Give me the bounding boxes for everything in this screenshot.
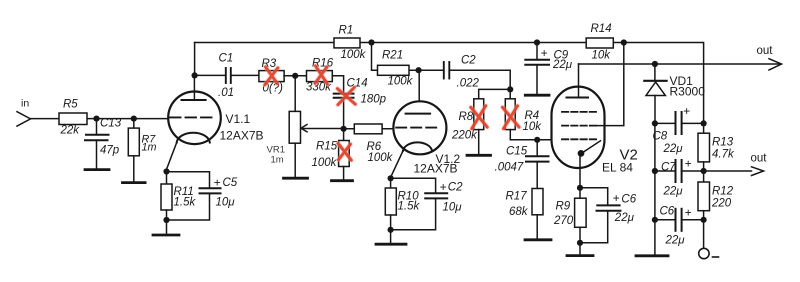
resistor R6: [344, 124, 394, 164]
resistor R11: [161, 172, 196, 234]
node C6 left: [652, 217, 658, 223]
wire left output column: [654, 123, 656, 255]
svg-text:EL 84: EL 84: [602, 161, 633, 175]
wire V1.1 plate to top rail: [194, 43, 196, 76]
ground (C9): [525, 94, 549, 97]
node VD1 tap: [652, 61, 658, 67]
capacitor C5: [167, 172, 238, 220]
svg-text:22μ: 22μ: [665, 235, 686, 247]
node out label top: [757, 45, 782, 70]
svg-text:out: out: [757, 45, 774, 57]
node V1.2 cathode junction: [388, 175, 394, 181]
potentiometer VR1: [267, 76, 344, 178]
svg-text:10μ: 10μ: [443, 201, 463, 213]
node R10 bottom junction: [388, 227, 394, 233]
node C7 left: [652, 168, 658, 174]
resistor R9: [553, 188, 586, 255]
svg-text:12AX7B: 12AX7B: [220, 129, 264, 143]
node rail to R21 drop: [368, 39, 374, 45]
svg-text:R1: R1: [339, 25, 354, 37]
svg-text:in: in: [21, 98, 29, 110]
svg-text:C8: C8: [653, 131, 668, 143]
resistor R13: [698, 123, 735, 182]
svg-text:22μ: 22μ: [552, 59, 573, 71]
svg-text:R12: R12: [712, 186, 734, 198]
node minus mark: [713, 256, 719, 258]
resistor R17: [506, 189, 544, 239]
X over R3: [265, 67, 278, 85]
svg-text:+: +: [213, 176, 220, 190]
svg-text:+: +: [439, 180, 446, 194]
node wiper junction: [341, 126, 347, 132]
ground (output column): [636, 254, 668, 257]
resistor R10: [385, 178, 420, 243]
resistor R21: [372, 43, 444, 88]
node junction C13: [93, 116, 99, 122]
node C8 left: [652, 120, 658, 126]
node C15 tap: [534, 137, 540, 143]
node C9 tap: [534, 39, 540, 45]
node C1 tap: [192, 72, 198, 78]
svg-text:1m: 1m: [142, 142, 157, 154]
svg-text:R5: R5: [63, 99, 78, 111]
svg-text:V1.1: V1.1: [226, 112, 251, 126]
svg-text:out: out: [751, 153, 768, 165]
svg-text:R8: R8: [459, 111, 474, 123]
capacitor C1: [195, 53, 259, 100]
capacitor C8: [653, 104, 704, 155]
svg-text:R9: R9: [556, 201, 571, 213]
resistor R16: [306, 58, 344, 94]
resistor R7: [128, 119, 156, 182]
X over R15: [338, 143, 351, 160]
capacitor C6 output: [655, 206, 704, 247]
wire out2: [704, 170, 752, 172]
svg-text:22μ: 22μ: [614, 212, 635, 224]
svg-text:100k: 100k: [341, 49, 367, 61]
svg-text:270: 270: [553, 215, 574, 227]
node junction R7: [131, 116, 137, 122]
triode V1.1: [167, 75, 264, 171]
svg-text:10k: 10k: [592, 50, 612, 62]
node C2 split: [507, 86, 513, 92]
ground (R11): [153, 234, 179, 237]
svg-text:12AX7B: 12AX7B: [414, 162, 458, 176]
svg-text:.022: .022: [457, 78, 480, 90]
svg-text:R3000: R3000: [670, 85, 706, 99]
resistor R15: [312, 129, 350, 180]
svg-text:220k: 220k: [451, 130, 478, 142]
diode VD1: [644, 64, 705, 123]
ground (R9): [567, 254, 593, 257]
triode V1.2: [391, 70, 461, 178]
svg-text:R15: R15: [316, 141, 338, 153]
svg-text:C2: C2: [448, 181, 463, 193]
wire V2 plate to out: [579, 63, 782, 65]
svg-text:100k: 100k: [388, 76, 414, 88]
ground (R8): [467, 154, 491, 157]
svg-text:220: 220: [711, 198, 732, 210]
svg-text:1m: 1m: [271, 155, 284, 166]
svg-text:22k: 22k: [60, 125, 81, 137]
input connector: [17, 112, 31, 126]
svg-text:C5: C5: [223, 177, 238, 189]
resistor R4: [505, 99, 554, 140]
svg-text:C6: C6: [621, 193, 636, 205]
node R14/screen junction: [621, 39, 627, 45]
node R21/C2/V1.2 plate junction: [416, 67, 422, 73]
wire input to R5 and on to V1.1 grid: [31, 118, 169, 120]
node C8 right: [701, 120, 707, 126]
node C6 right: [701, 217, 707, 223]
svg-text:1.5k: 1.5k: [174, 197, 197, 209]
svg-text:1.5k: 1.5k: [398, 201, 421, 213]
capacitor C9: [525, 43, 572, 95]
svg-text:100k: 100k: [312, 157, 338, 169]
svg-text:+: +: [612, 191, 619, 205]
svg-text:22μ: 22μ: [663, 186, 684, 198]
pentode V2: [552, 64, 638, 188]
ground (C13): [85, 168, 109, 171]
capacitor C15: [495, 140, 549, 189]
svg-text:100k: 100k: [368, 152, 394, 164]
svg-text:R21: R21: [382, 50, 403, 62]
resistor R1: [334, 25, 367, 62]
resistor R14: [586, 23, 613, 62]
node out label mid: [751, 153, 768, 176]
capacitor C6 cathode bypass: [580, 188, 637, 243]
svg-text:10k: 10k: [523, 121, 543, 133]
svg-text:.0047: .0047: [495, 162, 524, 174]
terminal circle: [699, 248, 709, 258]
ground (VR1): [284, 177, 308, 180]
svg-text:R17: R17: [506, 191, 528, 203]
X over R4: [503, 106, 520, 129]
svg-text:47p: 47p: [100, 145, 120, 157]
resistor R8: [451, 99, 484, 155]
svg-text:R14: R14: [591, 23, 612, 35]
capacitor C2 cathode bypass: [391, 178, 464, 230]
svg-text:180p: 180p: [361, 94, 387, 106]
svg-text:+: +: [540, 46, 547, 60]
svg-text:C14: C14: [347, 78, 368, 90]
svg-text:C1: C1: [219, 53, 234, 65]
X over R8: [471, 106, 487, 129]
svg-text:.01: .01: [218, 87, 234, 99]
node V2 cathode junction: [577, 185, 583, 191]
svg-text:68k: 68k: [509, 206, 529, 218]
capacitor C13: [85, 118, 122, 169]
svg-text:4.7k: 4.7k: [712, 149, 735, 161]
node V1.1 cathode junction: [163, 168, 169, 174]
node R3/R16/VR1 junction: [292, 73, 298, 79]
ground (R7): [123, 181, 146, 184]
svg-text:+: +: [684, 206, 691, 220]
red X marks: [265, 66, 519, 160]
svg-text:C7: C7: [661, 162, 676, 174]
X over R16: [315, 66, 327, 84]
node R11 bottom junction: [163, 217, 169, 223]
svg-text:+: +: [683, 104, 690, 118]
ground (R10): [376, 243, 406, 246]
svg-text:C15: C15: [506, 146, 528, 158]
svg-text:22μ: 22μ: [663, 143, 684, 155]
svg-text:C13: C13: [100, 118, 122, 130]
svg-text:C2: C2: [461, 55, 476, 67]
X over C14: [337, 87, 355, 104]
wire top rail (B+): [195, 43, 704, 124]
capacitor C7: [655, 157, 704, 198]
resistor R12: [698, 182, 734, 248]
ground (R17): [525, 238, 551, 241]
wire screen to rail: [596, 43, 624, 126]
node C7 right / out2: [701, 168, 707, 174]
svg-text:R13: R13: [712, 137, 734, 149]
wire split to R8: [479, 89, 511, 98]
svg-text:+: +: [684, 157, 691, 171]
capacitor C2 coupling: [444, 55, 510, 99]
node R9 bottom junction: [577, 240, 583, 246]
ground (R15): [332, 179, 353, 182]
capacitor C14: [334, 78, 387, 130]
svg-text:C6: C6: [660, 206, 675, 218]
resistor R3: [259, 58, 307, 95]
svg-text:10μ: 10μ: [216, 197, 236, 209]
resistor R5: [59, 99, 87, 137]
